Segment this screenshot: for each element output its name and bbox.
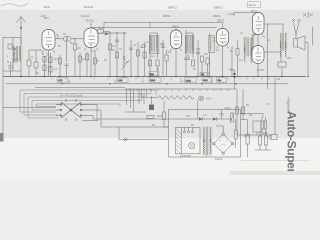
svg-text:0,1: 0,1 [133,44,137,47]
svg-text:EL41: EL41 [251,10,257,13]
svg-text:M: M [7,61,9,64]
svg-text:EBF11: EBF11 [168,6,177,10]
svg-text:400: 400 [287,57,292,60]
svg-text:0,1μF: 0,1μF [228,13,235,16]
svg-text:0,1: 0,1 [63,33,67,36]
svg-text:Hagenuk: Hagenuk [287,97,291,112]
svg-text:10kΩ: 10kΩ [150,80,156,82]
svg-text:1M: 1M [204,53,207,56]
svg-text:47kΩ: 47kΩ [186,80,192,82]
svg-text:EL42: EL42 [257,68,264,72]
svg-text:0,1: 0,1 [267,39,271,42]
svg-text:50μF: 50μF [262,132,268,135]
svg-text:EF9: EF9 [44,17,49,20]
svg-text:0,1: 0,1 [168,51,172,54]
svg-text:(F + 4(TU 1/52) omit): (F + 4(TU 1/52) omit) [60,95,83,98]
svg-text:EBF11: EBF11 [214,6,223,10]
svg-text:0,5: 0,5 [229,68,233,71]
svg-text:0,5: 0,5 [112,45,116,48]
svg-text:EF9: EF9 [44,5,50,9]
svg-text:1M: 1M [77,47,80,50]
svg-text:465: 465 [196,48,201,51]
svg-text:100mA: 100mA [215,158,223,161]
svg-text:0,1μF: 0,1μF [98,27,105,30]
svg-text:0,3: 0,3 [239,59,243,62]
svg-text:ECH11: ECH11 [84,5,94,9]
svg-text:EBF11: EBF11 [172,26,180,29]
svg-text:EBF11: EBF11 [217,20,225,23]
svg-text:1MΩ: 1MΩ [203,80,208,82]
svg-text:0,1: 0,1 [82,58,86,61]
svg-text:0,1: 0,1 [54,68,58,71]
svg-text:300b: 300b [157,115,163,118]
svg-text:EBF11: EBF11 [163,14,171,18]
svg-text:0,5μF: 0,5μF [224,107,231,110]
svg-text:0,2: 0,2 [151,55,155,58]
svg-text:ECH11: ECH11 [81,14,90,18]
svg-text:0,1: 0,1 [30,56,34,59]
svg-text:ECH11: ECH11 [86,20,94,23]
svg-text:2M: 2M [54,58,57,61]
svg-text:6Ω: 6Ω [249,114,252,117]
svg-text:6V: 6V [152,124,155,127]
svg-text:0,1: 0,1 [210,81,214,84]
svg-text:6x2: 6x2 [186,115,191,118]
svg-text:6,3V: 6,3V [206,98,211,101]
svg-text:0,1μ: 0,1μ [118,80,123,82]
svg-text:0,1: 0,1 [203,114,207,117]
svg-text:Zerhacker: Zerhacker [180,154,191,157]
svg-text:0,1: 0,1 [141,81,145,84]
svg-text:EL41: EL41 [249,3,256,7]
svg-text:EBF11: EBF11 [213,14,221,18]
svg-text:5kΩ: 5kΩ [150,74,154,76]
svg-text:0,5: 0,5 [216,49,220,52]
svg-text:RF5: RF5 [244,135,249,138]
svg-text:0,1: 0,1 [156,68,160,71]
svg-text:Auto-Super: Auto-Super [285,111,299,174]
svg-text:6V: 6V [191,124,194,127]
svg-text:0,1: 0,1 [240,32,244,35]
svg-text:465: 465 [160,43,165,46]
svg-text:4Ω: 4Ω [277,78,280,81]
svg-text:0,1: 0,1 [92,50,96,53]
